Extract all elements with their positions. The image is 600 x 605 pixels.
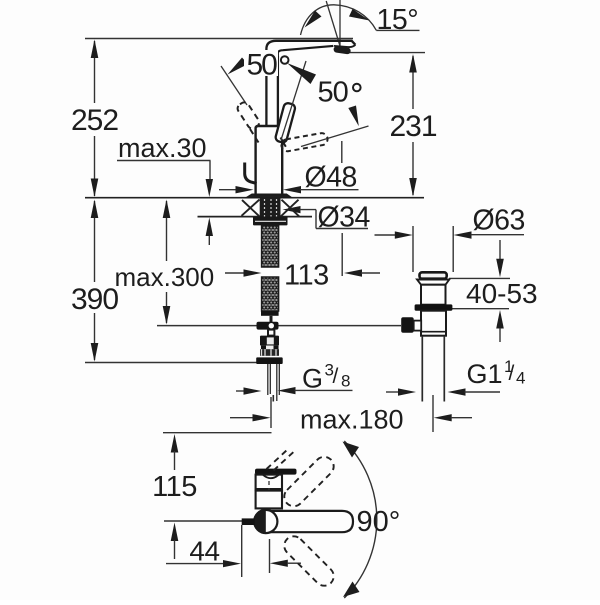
spout vertical axis reference line bbox=[339, 0, 341, 46]
15 deg arc arrowhead left bbox=[305, 11, 322, 28]
right gasket hatch bbox=[281, 200, 299, 217]
90 deg arc bbox=[344, 441, 377, 598]
bottom reference line bbox=[164, 520, 242, 522]
svg-text:Ø34: Ø34 bbox=[318, 202, 371, 234]
right dashed lever axis line bbox=[301, 126, 369, 147]
left dashed lever axis line bbox=[221, 66, 247, 105]
supply pipe (double-wall tube) bbox=[267, 364, 269, 395]
locknut bbox=[253, 217, 288, 226]
drain cap bbox=[420, 272, 447, 278]
hose end block bbox=[261, 311, 279, 316]
drain lever knob bbox=[401, 317, 414, 333]
deck top line bbox=[85, 197, 424, 199]
pop-up pull rod knob bbox=[245, 163, 257, 184]
swung spout dashed upper bbox=[280, 453, 337, 510]
drain upper body bbox=[421, 285, 446, 305]
svg-text:Ø63: Ø63 bbox=[473, 205, 525, 237]
svg-text:390: 390 bbox=[71, 283, 118, 316]
spout outline bbox=[266, 41, 355, 58]
deck bottom line bbox=[198, 216, 313, 218]
label G1 1/4 with arrows bbox=[386, 357, 525, 396]
svg-text:15°: 15° bbox=[377, 4, 419, 36]
threaded shank bbox=[260, 199, 281, 217]
svg-text:Ø48: Ø48 bbox=[305, 162, 357, 194]
svg-text:max.180: max.180 bbox=[300, 405, 404, 435]
lever top bar (plan) bbox=[255, 469, 297, 475]
dimension 252 bbox=[71, 40, 118, 198]
svg-text:113: 113 bbox=[284, 260, 329, 292]
90 deg arc arrowhead top bbox=[343, 442, 360, 458]
15 deg arc arrowhead right bbox=[349, 9, 370, 21]
svg-text:50: 50 bbox=[247, 49, 278, 82]
svg-text:115: 115 bbox=[152, 471, 197, 503]
svg-text:G1: G1 bbox=[467, 359, 503, 389]
dimension 44 bbox=[166, 525, 301, 577]
base flange bbox=[247, 194, 292, 197]
flexible hose braid lower bbox=[262, 277, 279, 311]
G3/8 level line bbox=[85, 362, 257, 364]
top reference line bbox=[163, 432, 272, 434]
dimension 231 bbox=[348, 53, 437, 197]
dimension max.180 bbox=[230, 395, 472, 435]
right dashed lever bbox=[281, 133, 327, 151]
90 deg arc arrowhead bottom bbox=[343, 582, 360, 598]
svg-text:4: 4 bbox=[516, 369, 525, 388]
pop-up rod pivot assembly bbox=[270, 316, 273, 322]
svg-text:50: 50 bbox=[318, 77, 348, 109]
dimension 115 bbox=[152, 434, 197, 559]
dimension 113 bbox=[225, 233, 380, 292]
hose bottom flange bbox=[256, 357, 283, 364]
spout tilted axis line 15 deg bbox=[326, 1, 340, 46]
left dashed lever bbox=[236, 100, 261, 130]
aerator opening (dark) bbox=[333, 46, 351, 55]
aerator tip outline bbox=[334, 45, 355, 47]
drain lower body bbox=[421, 311, 446, 336]
dimension o63 bbox=[375, 205, 525, 273]
svg-text:max.30: max.30 bbox=[118, 133, 207, 163]
label G3/8 with arrows bbox=[236, 361, 353, 395]
left 50 deg arc arrowhead bbox=[228, 58, 249, 75]
mounting tab bbox=[242, 518, 255, 525]
svg-text:max.300: max.300 bbox=[115, 262, 215, 292]
lever raised dashed lines bbox=[267, 450, 288, 470]
svg-text:8: 8 bbox=[341, 372, 350, 391]
spout bar (plan) bbox=[266, 511, 353, 532]
spout pivot circle bbox=[254, 510, 277, 533]
top reference line bbox=[85, 38, 353, 40]
lever inner arc bbox=[263, 475, 279, 478]
15 deg arc bbox=[301, 5, 377, 35]
15 deg label underline bbox=[376, 29, 419, 31]
svg-text:44: 44 bbox=[189, 536, 219, 567]
lever body box bbox=[256, 475, 282, 491]
left gasket hatch bbox=[242, 200, 260, 216]
dimension o48 bbox=[219, 162, 359, 194]
flexible hose braid upper bbox=[262, 225, 279, 267]
body mid box bbox=[256, 491, 282, 509]
swung spout dashed lower bbox=[280, 532, 337, 589]
left lever dashed extension bbox=[250, 129, 259, 143]
svg-text:G: G bbox=[302, 364, 323, 394]
G3/8 fitting stack bbox=[260, 336, 279, 346]
body bottom line bbox=[254, 194, 284, 196]
drain seal ring bbox=[415, 304, 453, 310]
dimension 40-53 bbox=[449, 240, 538, 342]
drain flare bbox=[417, 280, 449, 285]
right 50 deg arc lower arrowhead bbox=[348, 106, 359, 127]
hose end reference line / pop-up rod bbox=[157, 325, 401, 327]
svg-text:/: / bbox=[333, 365, 339, 388]
dimension o34 bbox=[283, 202, 371, 234]
solid lever bbox=[275, 102, 296, 143]
dimension 390 bbox=[71, 200, 118, 362]
svg-text:90°: 90° bbox=[357, 506, 401, 538]
label max.30 with leader bbox=[117, 133, 213, 245]
svg-text:40-53: 40-53 bbox=[466, 278, 538, 309]
right 50 deg arc upper arrowhead bbox=[287, 63, 316, 84]
svg-text:231: 231 bbox=[389, 110, 436, 143]
solid lever axis extension bbox=[281, 61, 306, 140]
spout riser tube bbox=[265, 56, 267, 126]
label 50 deg halo bbox=[244, 50, 278, 76]
drain tailpipe bbox=[421, 336, 423, 402]
dimension max.300 bbox=[115, 200, 215, 325]
lever joint line bbox=[281, 138, 286, 147]
aerator vertical extension line bbox=[341, 141, 343, 163]
svg-text:/: / bbox=[509, 362, 515, 385]
svg-text:252: 252 bbox=[71, 104, 118, 137]
faucet body bbox=[256, 126, 283, 196]
